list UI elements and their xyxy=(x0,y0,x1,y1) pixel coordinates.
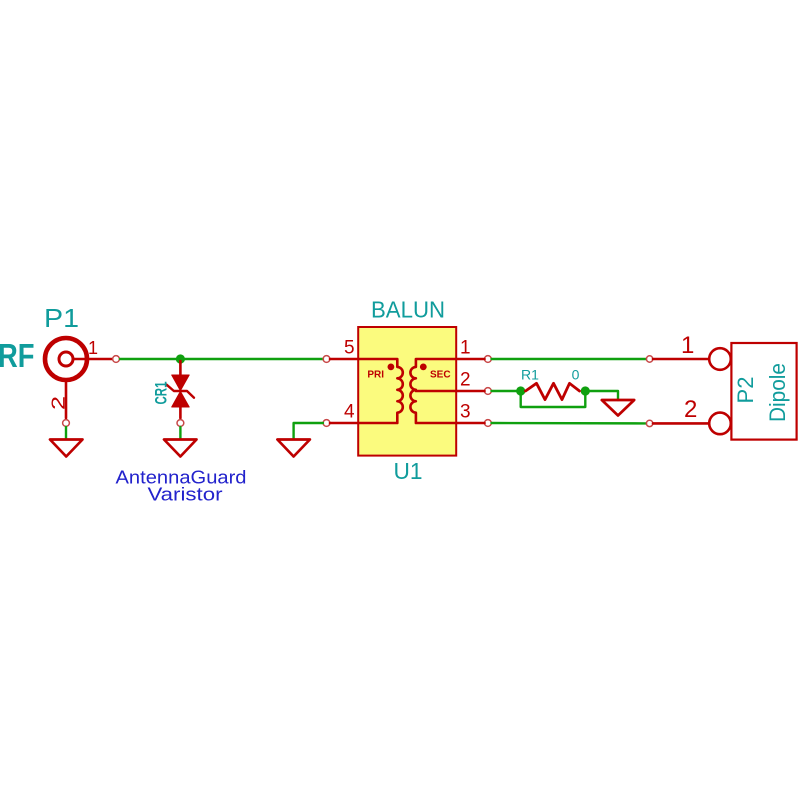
svg-text:1: 1 xyxy=(88,338,98,358)
secondary center tap of U1 xyxy=(416,390,456,393)
svg-text:2: 2 xyxy=(49,396,69,410)
svg-text:5: 5 xyxy=(344,338,355,359)
junction node B xyxy=(581,386,590,395)
svg-text:2: 2 xyxy=(460,370,471,391)
svg-text:P1: P1 xyxy=(44,303,79,333)
svg-text:PRI: PRI xyxy=(367,370,384,381)
svg-text:U1: U1 xyxy=(394,458,423,484)
svg-text:1: 1 xyxy=(460,338,471,359)
svg-text:2: 2 xyxy=(684,396,697,423)
svg-text:0: 0 xyxy=(572,367,580,383)
pin 2 of P2 xyxy=(646,420,652,426)
junction node RF xyxy=(176,354,185,363)
svg-text:3: 3 xyxy=(460,402,471,423)
connector P2 body xyxy=(731,343,796,440)
svg-text:CR1: CR1 xyxy=(152,382,171,405)
pin 2 of P1 xyxy=(65,380,68,418)
ground (U1 pin 4) xyxy=(277,440,310,457)
svg-text:1: 1 xyxy=(681,332,694,359)
svg-text:P2: P2 xyxy=(733,377,758,404)
pin 3 of U1 xyxy=(485,420,492,427)
wire CR1 to ground xyxy=(179,427,181,439)
secondary polarity dot xyxy=(420,364,427,371)
wire U1 pin3 to P2 pin2 xyxy=(492,422,647,425)
varistor CR1 xyxy=(167,361,194,418)
svg-text:Varistor: Varistor xyxy=(148,485,223,505)
secondary winding of U1 xyxy=(410,359,456,423)
pin 1 of U1 xyxy=(485,356,492,363)
wire U1 pin1 to P2 pin1 xyxy=(492,358,647,360)
resistor R1 xyxy=(526,383,580,399)
ground (P1) xyxy=(50,440,83,457)
svg-text:RF: RF xyxy=(0,337,35,374)
wire P1 pin2 to ground xyxy=(65,427,67,439)
pin 4 of U1 xyxy=(323,420,330,427)
pin 5 of U1 xyxy=(323,356,330,363)
ground (CR1) xyxy=(164,440,197,457)
wire U1 pin2 to R1 xyxy=(492,390,521,392)
pin 1 of P1 xyxy=(73,358,112,361)
svg-text:R1: R1 xyxy=(521,367,539,383)
ground (R1) xyxy=(602,400,634,416)
primary winding of U1 xyxy=(358,359,403,423)
svg-text:BALUN: BALUN xyxy=(371,297,445,323)
pin 1 of P2 xyxy=(646,356,652,362)
connector P1 body xyxy=(45,338,87,380)
junction node A xyxy=(516,386,525,395)
svg-text:Dipole: Dipole xyxy=(765,363,790,422)
wire R1 to ground xyxy=(585,391,618,400)
wire P1 to U1 pin 5 xyxy=(120,358,323,360)
wire U1 pin4 to ground xyxy=(294,423,323,439)
svg-text:4: 4 xyxy=(344,402,355,423)
balun U1 body xyxy=(358,327,456,456)
wire bypass under R1 xyxy=(521,391,586,407)
svg-text:SEC: SEC xyxy=(430,370,451,381)
pin 2 of U1 xyxy=(485,388,492,395)
primary polarity dot xyxy=(388,364,395,371)
